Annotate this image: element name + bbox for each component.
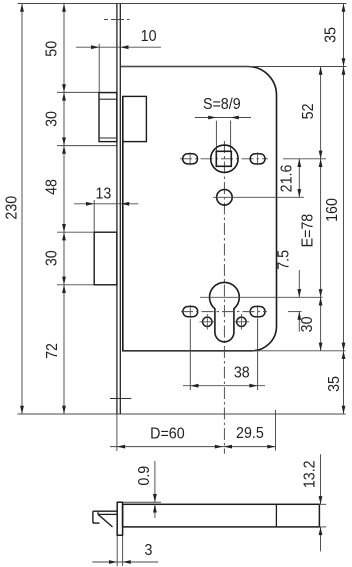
- bar divider line: [275, 504, 277, 527]
- euro cylinder hole: [209, 282, 239, 341]
- svg-text:13.2: 13.2: [302, 460, 319, 488]
- dimension 3 plate thickness: [92, 561, 158, 563]
- svg-text:72: 72: [45, 343, 62, 359]
- baseline extension (faceplate bottom): [18, 413, 346, 415]
- svg-text:10: 10: [141, 29, 157, 46]
- dimension S=8/9 spindle: [195, 117, 251, 119]
- row2 extension line right: [288, 311, 302, 313]
- dimension 38: [183, 385, 265, 387]
- screw hole obround bottom-left: [183, 307, 198, 317]
- svg-text:50: 50: [44, 41, 61, 57]
- svg-text:38: 38: [234, 365, 250, 382]
- svg-text:0.9: 0.9: [136, 466, 153, 486]
- cylinder screw circle left: [203, 317, 212, 326]
- follower square hole: [216, 151, 231, 166]
- lock case outline: [120, 67, 276, 351]
- dimension 35 bottom: [343, 351, 345, 414]
- screw hole obround bottom-right: [250, 307, 265, 317]
- screw hole obround top-right: [250, 154, 265, 164]
- chain extension lines: [57, 91, 117, 93]
- svg-text:30: 30: [300, 316, 317, 332]
- svg-text:E=78: E=78: [300, 214, 317, 248]
- lock case bar side view: [123, 504, 320, 527]
- cylinder screw circle right: [237, 317, 246, 326]
- cylinder center extension line: [200, 296, 323, 298]
- dimension 160: [343, 67, 345, 351]
- plate top extension line: [123, 501, 161, 503]
- follower horizontal centerline: [180, 158, 268, 160]
- small hole extension line to 21.6: [213, 196, 304, 198]
- faceplate strip: [116, 4, 118, 415]
- dimension 30 right: [320, 297, 322, 351]
- svg-text:29.5: 29.5: [236, 425, 264, 442]
- small hole below follower: [217, 190, 233, 206]
- chain dimension line 50/30/48/30/72: [63, 4, 65, 415]
- dimension E=78: [320, 159, 322, 297]
- follower circle: [211, 145, 238, 172]
- dimension 35 top: [343, 4, 345, 67]
- faceplate tick mark bottom: [110, 398, 131, 400]
- svg-text:S=8/9: S=8/9: [203, 97, 241, 114]
- latch bolt plan view: [99, 93, 117, 142]
- vertical centerline: [223, 141, 225, 454]
- dimension 13.2: [320, 454, 322, 504]
- dimension 0.9: [154, 461, 156, 502]
- dimension 52: [320, 67, 322, 159]
- svg-text:13: 13: [95, 186, 111, 203]
- faceplate section plate: [117, 502, 122, 535]
- svg-text:D=60: D=60: [150, 426, 184, 443]
- case bottom extension line: [123, 350, 346, 352]
- faceplate screw centerline top: [104, 19, 130, 21]
- svg-text:30: 30: [44, 111, 61, 127]
- follower extension line right: [283, 158, 326, 160]
- deadbolt plan view: [94, 232, 117, 285]
- row2 horizontal centerline: [181, 311, 267, 313]
- svg-text:30: 30: [44, 250, 61, 266]
- screw hole obround top-left: [183, 154, 198, 164]
- svg-text:3: 3: [145, 543, 153, 560]
- svg-text:7.5: 7.5: [276, 250, 293, 270]
- latch head inside case: [123, 96, 147, 141]
- top extension line (faceplate top): [18, 3, 347, 5]
- latch bolt side view: [93, 510, 117, 512]
- svg-text:48: 48: [44, 179, 61, 195]
- svg-text:35: 35: [327, 376, 344, 392]
- svg-text:35: 35: [323, 27, 340, 43]
- case top extension line: [120, 66, 346, 68]
- dimension 21.6: [298, 159, 300, 198]
- svg-text:21.6: 21.6: [279, 165, 296, 193]
- dimension D=60 and 29.5 line: [110, 446, 276, 448]
- dimension 13 deadbolt protrusion: [74, 203, 138, 205]
- svg-text:160: 160: [325, 198, 342, 222]
- dimension 230 line: [21, 4, 23, 415]
- svg-text:52: 52: [301, 103, 318, 119]
- dimension 10 latch protrusion: [76, 46, 161, 48]
- svg-text:230: 230: [4, 196, 21, 220]
- dimension 7.5: [298, 270, 300, 297]
